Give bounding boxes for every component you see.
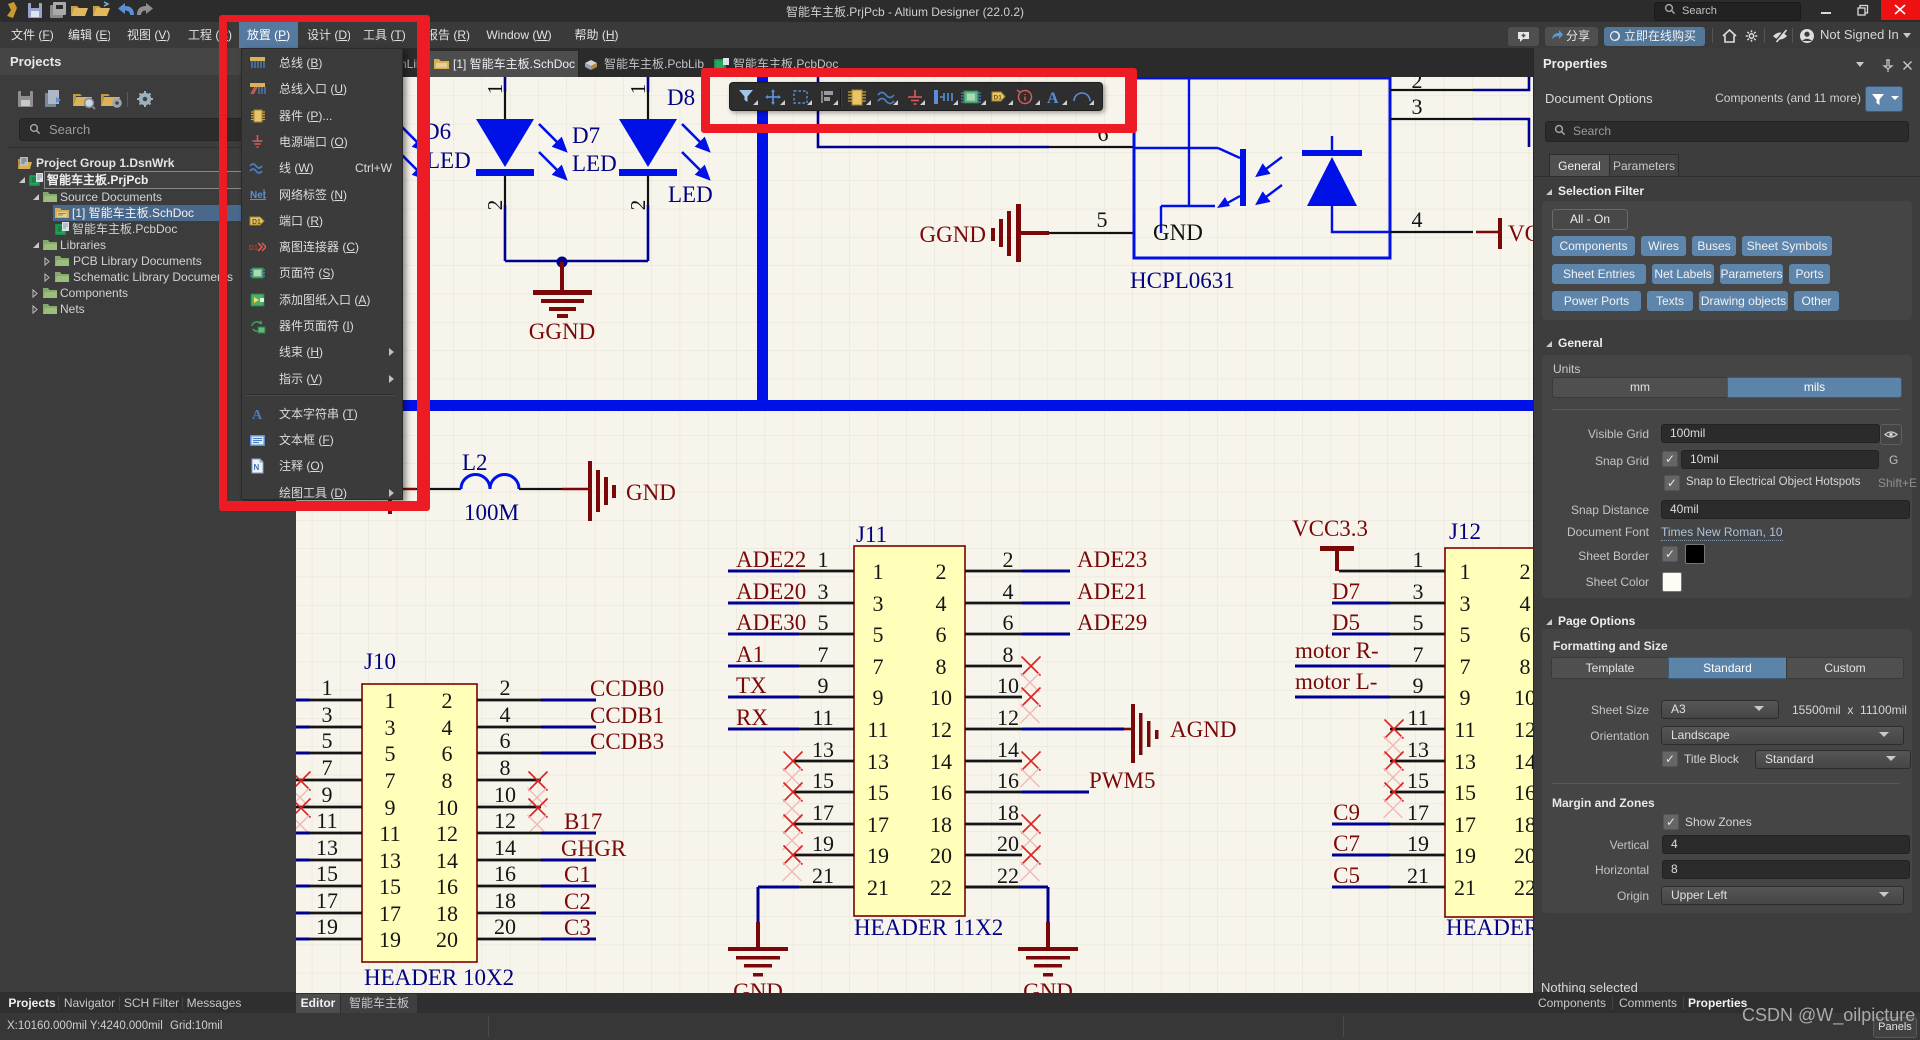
svg-text:ADE21: ADE21 [1077,579,1147,604]
svg-text:21: 21 [812,863,834,888]
svg-text:2: 2 [442,688,453,713]
svg-text:4: 4 [936,591,947,616]
svg-text:ADE30: ADE30 [736,610,806,635]
svg-text:GGND: GGND [920,222,986,247]
svg-text:14: 14 [997,737,1019,762]
svg-text:2: 2 [936,559,947,584]
svg-text:17: 17 [867,812,889,837]
svg-text:HEADER 11X2: HEADER 11X2 [854,915,1003,940]
svg-text:11: 11 [1454,717,1475,742]
svg-text:1: 1 [873,559,884,584]
svg-text:20: 20 [1514,843,1533,868]
svg-text:18: 18 [930,812,952,837]
svg-text:100M: 100M [464,500,519,525]
svg-text:3: 3 [385,715,396,740]
svg-text:16: 16 [1514,780,1533,805]
svg-text:15: 15 [867,780,889,805]
svg-text:TX: TX [736,673,767,698]
svg-text:14: 14 [436,848,458,873]
svg-text:C1: C1 [564,862,591,887]
svg-text:13: 13 [1454,749,1476,774]
svg-text:22: 22 [1514,875,1533,900]
svg-text:11: 11 [812,705,833,730]
svg-text:1: 1 [1413,547,1424,572]
svg-text:19: 19 [812,831,834,856]
svg-text:8: 8 [500,755,511,780]
svg-text:7: 7 [385,768,396,793]
svg-text:6: 6 [1520,622,1531,647]
svg-text:18: 18 [1514,812,1533,837]
svg-text:6: 6 [442,741,453,766]
svg-text:GGND: GGND [529,319,595,344]
svg-text:L2: L2 [462,450,488,475]
svg-text:19: 19 [867,843,889,868]
svg-text:4: 4 [1520,591,1531,616]
svg-text:11: 11 [1407,705,1428,730]
svg-text:GND: GND [626,480,676,505]
svg-text:9: 9 [322,782,333,807]
svg-text:HEADER 11X2: HEADER 11X2 [1446,915,1533,940]
svg-text:17: 17 [1454,812,1476,837]
svg-text:2: 2 [1412,77,1423,93]
svg-text:J10: J10 [364,649,396,674]
svg-text:15: 15 [812,768,834,793]
svg-text:14: 14 [494,835,516,860]
svg-text:9: 9 [1413,673,1424,698]
svg-text:1: 1 [818,547,829,572]
svg-text:7: 7 [818,642,829,667]
svg-text:9: 9 [873,685,884,710]
svg-text:20: 20 [494,914,516,939]
svg-text:J12: J12 [1449,519,1481,544]
svg-text:GND: GND [1023,979,1073,993]
svg-text:4: 4 [1003,579,1014,604]
svg-text:LED: LED [668,182,713,207]
svg-text:C2: C2 [564,889,591,914]
svg-text:15: 15 [1407,768,1429,793]
svg-text:C3: C3 [564,915,591,940]
svg-text:10: 10 [997,673,1019,698]
svg-text:A1: A1 [736,642,764,667]
svg-text:B17: B17 [564,809,602,834]
svg-text:AGND: AGND [1170,717,1236,742]
svg-text:1: 1 [385,688,396,713]
svg-text:D7: D7 [572,123,600,148]
svg-text:7: 7 [1460,654,1471,679]
svg-text:3: 3 [1413,579,1424,604]
svg-text:CCDB1: CCDB1 [590,703,664,728]
svg-text:ADE29: ADE29 [1077,610,1147,635]
svg-text:CCDB3: CCDB3 [590,729,664,754]
svg-text:17: 17 [316,888,338,913]
svg-text:ADE23: ADE23 [1077,547,1147,572]
svg-text:2: 2 [1520,559,1531,584]
svg-text:8: 8 [1003,642,1014,667]
svg-text:18: 18 [494,888,516,913]
svg-text:13: 13 [867,749,889,774]
svg-text:16: 16 [997,768,1019,793]
svg-text:GHGR: GHGR [561,836,627,861]
svg-text:20: 20 [997,831,1019,856]
svg-text:7: 7 [873,654,884,679]
svg-text:VCC3.3: VCC3.3 [1292,516,1368,541]
svg-text:14: 14 [1514,749,1533,774]
svg-text:20: 20 [436,927,458,952]
svg-text:12: 12 [494,808,516,833]
svg-text:10: 10 [494,782,516,807]
svg-text:19: 19 [1407,831,1429,856]
svg-text:18: 18 [997,800,1019,825]
svg-text:8: 8 [442,768,453,793]
svg-text:GND: GND [733,979,783,993]
svg-text:3: 3 [1460,591,1471,616]
svg-text:5: 5 [1097,207,1108,232]
svg-text:10: 10 [436,795,458,820]
svg-text:18: 18 [436,901,458,926]
svg-text:16: 16 [494,861,516,886]
svg-text:14: 14 [930,749,952,774]
svg-text:17: 17 [812,800,834,825]
svg-text:GND: GND [1153,220,1203,245]
svg-text:HCPL0631: HCPL0631 [1130,268,1235,293]
svg-text:3: 3 [1412,94,1423,119]
svg-text:15: 15 [316,861,338,886]
svg-text:12: 12 [997,705,1019,730]
svg-text:13: 13 [1407,737,1429,762]
svg-text:10: 10 [1514,685,1533,710]
svg-text:16: 16 [436,874,458,899]
svg-text:2: 2 [626,200,650,211]
svg-text:12: 12 [436,821,458,846]
svg-text:5: 5 [818,610,829,635]
svg-text:21: 21 [1407,863,1429,888]
svg-text:5: 5 [322,728,333,753]
svg-text:1: 1 [483,84,507,95]
svg-text:RX: RX [736,705,768,730]
svg-text:VCC: VCC [1508,221,1533,246]
svg-text:3: 3 [873,591,884,616]
svg-text:C7: C7 [1333,831,1360,856]
svg-text:4: 4 [500,702,511,727]
svg-text:13: 13 [316,835,338,860]
svg-text:C9: C9 [1333,800,1360,825]
svg-text:D5: D5 [1332,610,1360,635]
svg-text:CCDB0: CCDB0 [590,676,664,701]
svg-text:11: 11 [379,821,400,846]
svg-text:15: 15 [379,874,401,899]
svg-text:16: 16 [930,780,952,805]
svg-text:8: 8 [936,654,947,679]
svg-text:12: 12 [1514,717,1533,742]
svg-text:PWM5: PWM5 [1089,768,1155,793]
svg-text:17: 17 [379,901,401,926]
svg-text:20: 20 [930,843,952,868]
svg-text:1: 1 [626,84,650,95]
svg-text:3: 3 [322,702,333,727]
svg-text:9: 9 [818,673,829,698]
svg-text:ADE22: ADE22 [736,547,806,572]
svg-text:7: 7 [1413,642,1424,667]
svg-text:HEADER 10X2: HEADER 10X2 [364,965,514,990]
svg-text:6: 6 [500,728,511,753]
svg-text:9: 9 [1460,685,1471,710]
svg-text:11: 11 [867,717,888,742]
svg-text:10: 10 [930,685,952,710]
svg-text:7: 7 [322,755,333,780]
svg-text:D8: D8 [667,85,695,110]
svg-text:19: 19 [1454,843,1476,868]
svg-text:19: 19 [379,927,401,952]
svg-text:22: 22 [997,863,1019,888]
svg-text:4: 4 [1412,207,1423,232]
svg-text:1: 1 [322,675,333,700]
svg-text:2: 2 [1003,547,1014,572]
svg-text:21: 21 [1454,875,1476,900]
svg-text:1: 1 [1460,559,1471,584]
svg-text:2: 2 [483,200,507,211]
svg-text:D7: D7 [1332,579,1360,604]
svg-text:13: 13 [379,848,401,873]
svg-text:LED: LED [426,148,471,173]
svg-text:5: 5 [873,622,884,647]
svg-text:LED: LED [572,151,617,176]
svg-text:motor R-: motor R- [1295,638,1379,663]
svg-text:22: 22 [930,875,952,900]
svg-text:J11: J11 [856,522,887,547]
svg-text:9: 9 [385,795,396,820]
svg-text:6: 6 [936,622,947,647]
svg-text:6: 6 [1003,610,1014,635]
svg-text:4: 4 [442,715,453,740]
svg-text:12: 12 [930,717,952,742]
svg-text:15: 15 [1454,780,1476,805]
svg-text:C5: C5 [1333,863,1360,888]
svg-text:5: 5 [1413,610,1424,635]
svg-text:3: 3 [818,579,829,604]
svg-text:5: 5 [1460,622,1471,647]
svg-text:5: 5 [385,741,396,766]
svg-text:motor L-: motor L- [1295,669,1377,694]
svg-text:2: 2 [500,675,511,700]
svg-text:21: 21 [867,875,889,900]
svg-text:11: 11 [316,808,337,833]
svg-text:17: 17 [1407,800,1429,825]
svg-text:13: 13 [812,737,834,762]
svg-text:19: 19 [316,914,338,939]
svg-text:ADE20: ADE20 [736,579,806,604]
svg-text:8: 8 [1520,654,1531,679]
